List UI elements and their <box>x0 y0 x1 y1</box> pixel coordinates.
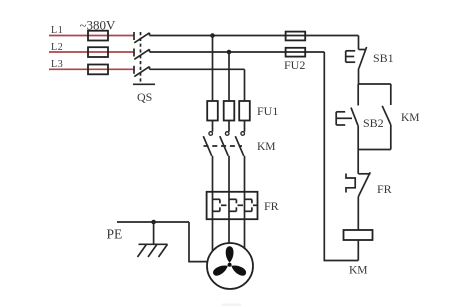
svg-text:PE: PE <box>107 227 123 242</box>
ground symbol <box>138 244 168 257</box>
button SB2 (NO) contact <box>351 108 358 150</box>
fuse FU2 lower <box>286 48 306 57</box>
wire U KM to FR <box>212 156 214 192</box>
FR heater element U <box>213 192 227 219</box>
wire W KM to FR <box>244 156 246 192</box>
svg-text:L3: L3 <box>51 59 63 70</box>
wire phase V drop <box>228 52 230 101</box>
svg-text:KM: KM <box>349 265 368 277</box>
fuse FU1 phase U <box>207 101 218 121</box>
wire U FR to motor <box>212 219 214 254</box>
FR heater element W <box>245 192 258 219</box>
wire L2 red <box>49 51 134 53</box>
svg-text:KM: KM <box>401 112 420 124</box>
wire PE to motor <box>189 222 212 262</box>
wire U fuse to KM <box>212 121 214 132</box>
wire parallel top rail <box>358 83 391 85</box>
junction dot PE <box>151 220 156 225</box>
wire V fuse to KM <box>228 121 230 132</box>
wire parallel bottom rail <box>358 149 391 151</box>
FR heater element V <box>229 192 243 219</box>
contactor KM aux contact <box>382 84 391 150</box>
svg-text:KM: KM <box>257 141 276 153</box>
junction dot on bus B <box>227 50 232 55</box>
svg-text:SB2: SB2 <box>363 116 384 130</box>
faint bottom artifact <box>222 304 241 307</box>
wire control left rail down <box>324 52 358 261</box>
wire PE horizontal <box>117 221 189 223</box>
svg-text:FR: FR <box>264 199 279 213</box>
wire V KM to FR <box>228 156 230 192</box>
switch QS pole 1 <box>134 32 150 43</box>
fuse FU2 upper <box>286 32 306 41</box>
contactor KM main contact U <box>203 132 212 156</box>
wire L1 red <box>49 35 134 37</box>
wire V FR to motor <box>228 219 230 246</box>
button SB1 actuator <box>346 51 356 62</box>
thermal relay FR box <box>207 192 258 219</box>
svg-text:QS: QS <box>137 90 152 104</box>
wire W fuse to KM <box>244 121 246 132</box>
contactor KM main contact W <box>235 132 244 156</box>
fuse FU on L3 <box>88 65 108 75</box>
fuse FU1 phase V <box>224 101 235 121</box>
switch QS handle bar <box>133 83 155 85</box>
fuse FU on L1 <box>88 31 108 41</box>
svg-text:SB1: SB1 <box>373 51 394 65</box>
thermal relay FR contact (NC) <box>358 172 370 230</box>
switch QS mechanical link (dashed) <box>140 32 142 84</box>
switch QS pole 2 <box>134 49 150 60</box>
motor fan blades <box>212 246 248 277</box>
svg-text:L1: L1 <box>51 25 63 36</box>
svg-text:FU2: FU2 <box>284 58 305 72</box>
fuse FU1 phase W <box>239 101 250 121</box>
junction dot on bus A <box>210 33 215 38</box>
wire phase W drop <box>244 69 246 101</box>
switch QS pole 3 <box>134 66 150 77</box>
svg-text:FU1: FU1 <box>257 104 278 118</box>
wire bus B (mid, y=52) <box>150 51 325 53</box>
ground stem <box>153 222 155 244</box>
wire SB2 branch top <box>357 84 359 106</box>
KM main contacts mechanical link (dashed) <box>204 145 243 147</box>
wire phase U drop <box>212 36 214 102</box>
wire W FR to motor <box>244 219 246 251</box>
wire down to FR contact <box>357 150 359 174</box>
wire L3 red <box>49 68 134 70</box>
coil KM <box>344 230 373 240</box>
wire bus C (bottom, y=69.3) <box>150 68 245 70</box>
svg-text:FR: FR <box>377 182 392 196</box>
motor M circle <box>207 243 253 289</box>
FR contact thermal actuator <box>346 174 355 193</box>
wire SB1 top drop <box>358 36 360 50</box>
button SB2 actuator <box>336 112 352 125</box>
button SB1 (NC) contact <box>359 47 367 84</box>
contactor KM main contact V <box>220 132 229 156</box>
wire coil to bottom <box>357 240 359 261</box>
wire bus A (top, y=35.5) <box>150 35 359 37</box>
fuse FU on L2 <box>88 47 108 57</box>
